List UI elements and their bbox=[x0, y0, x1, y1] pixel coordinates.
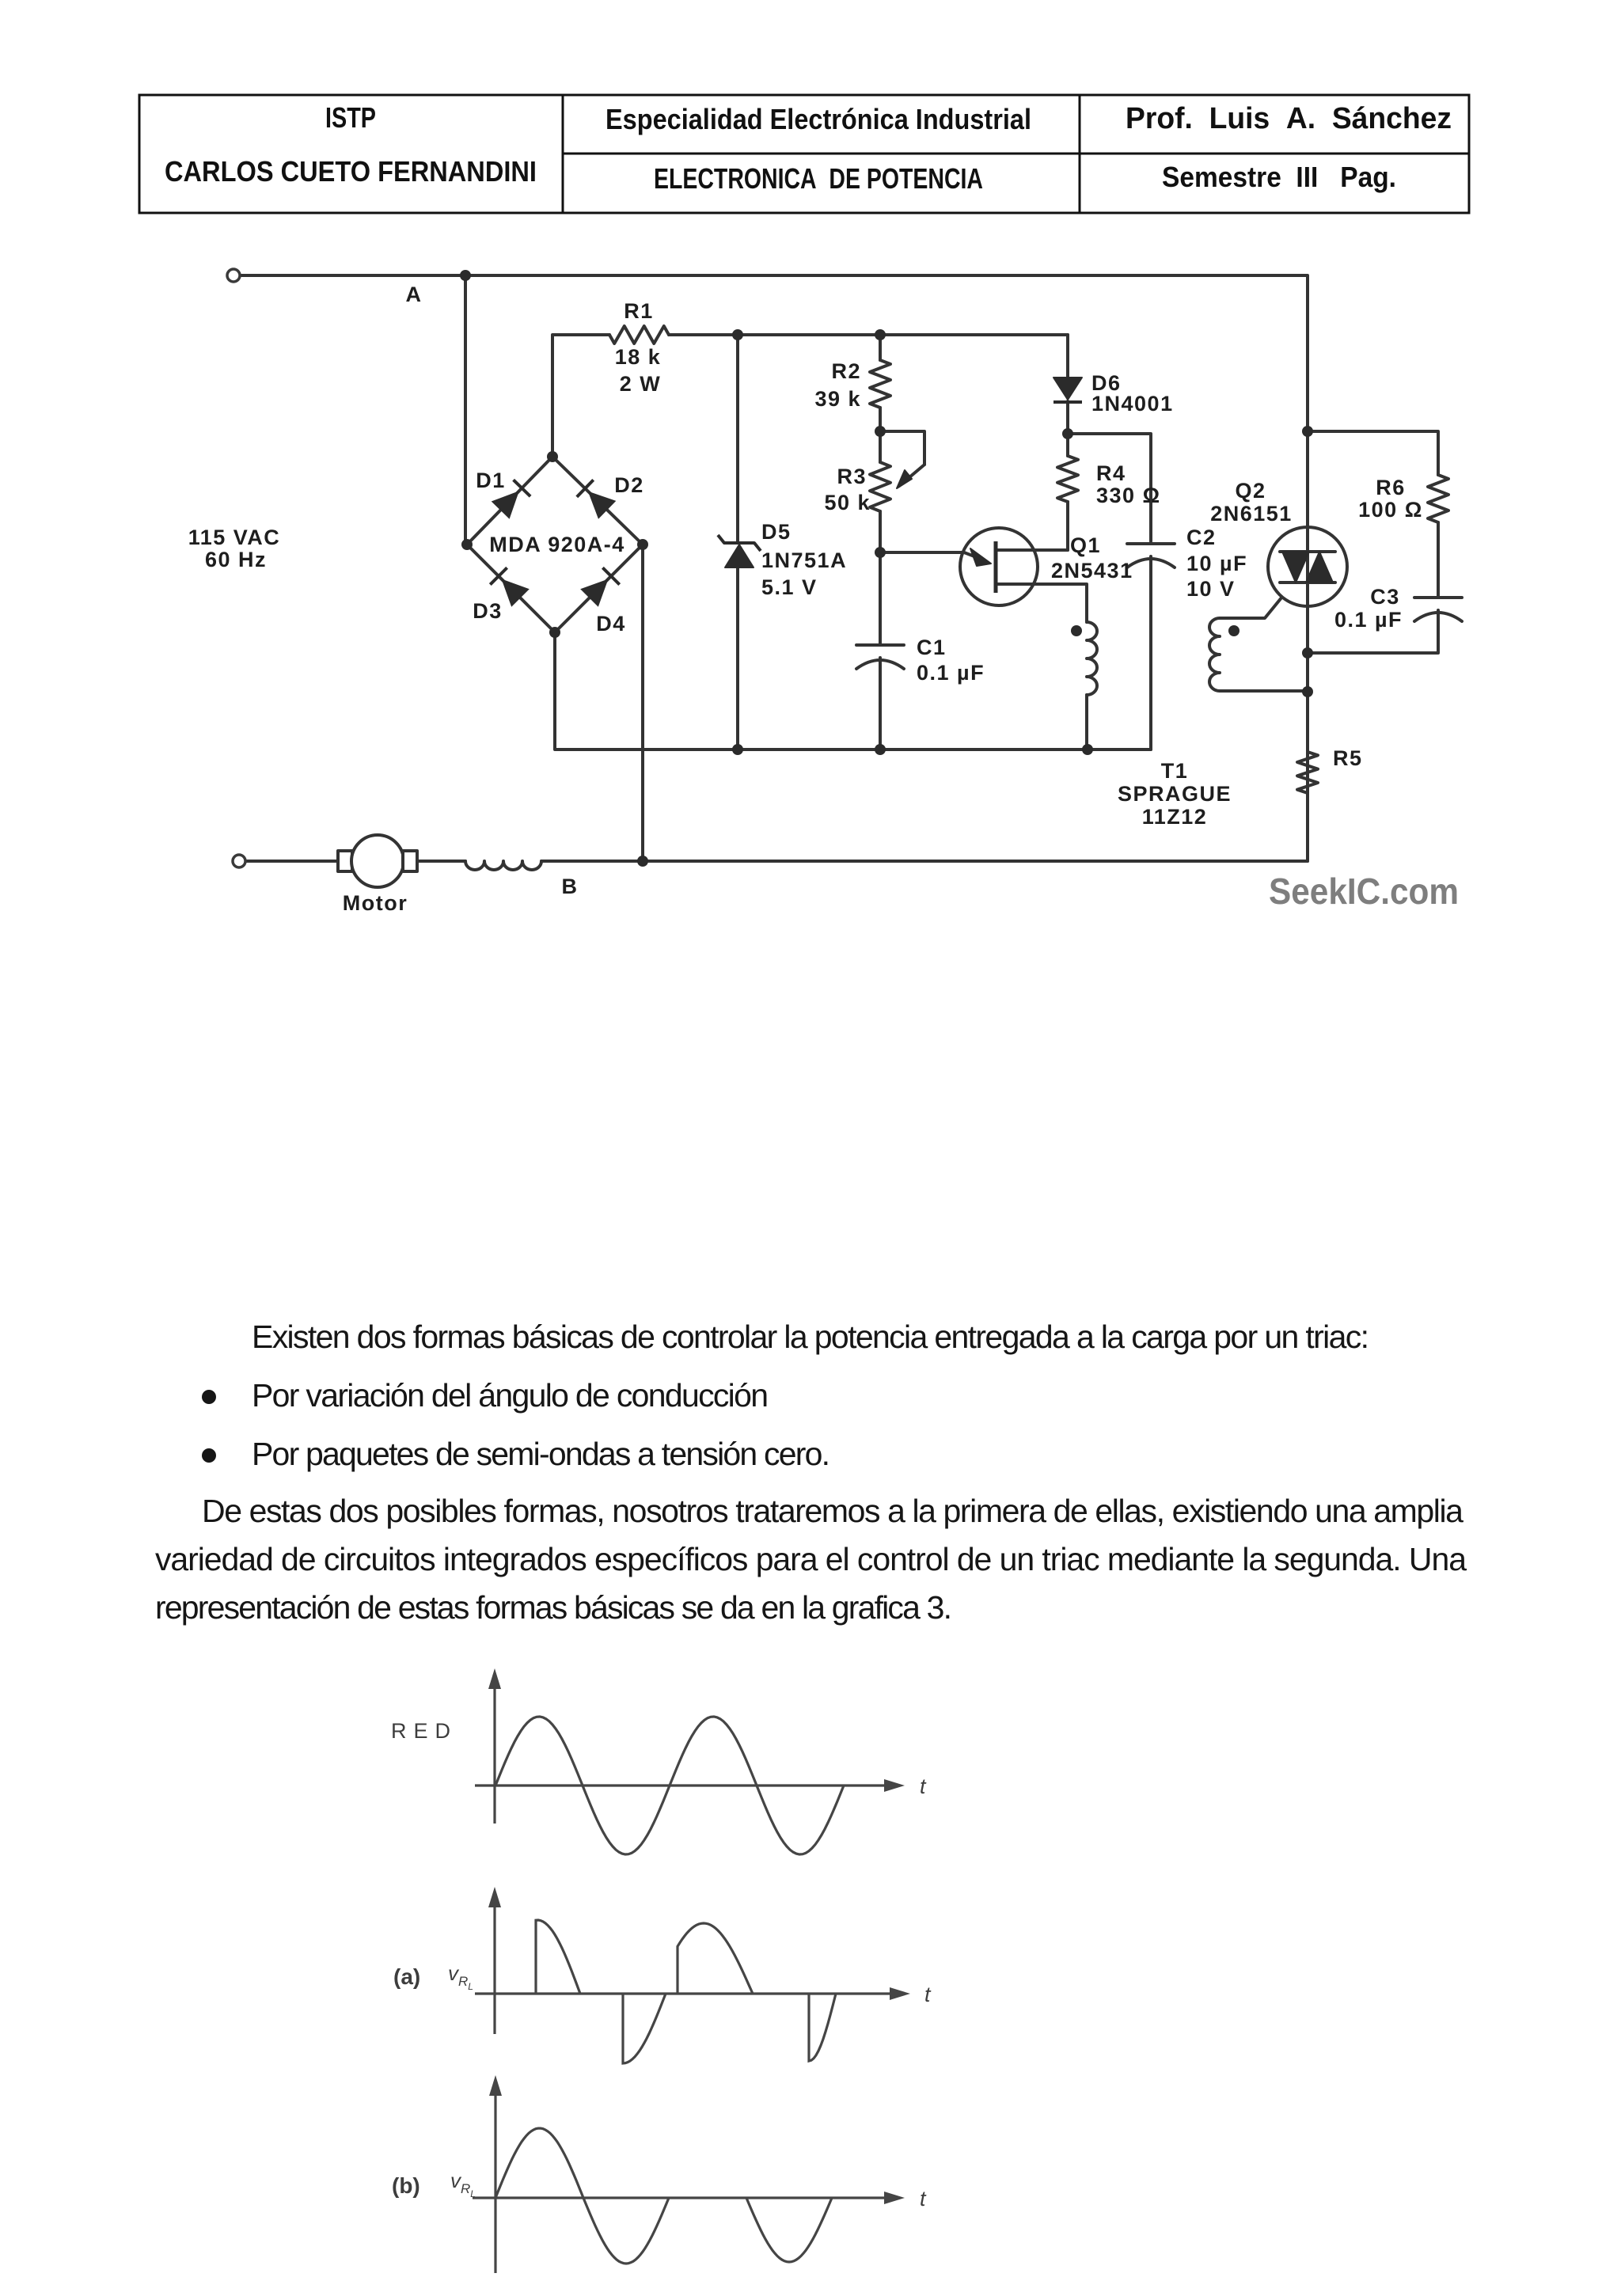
svg-text:5.1 V: 5.1 V bbox=[761, 575, 818, 599]
svg-text:Semestre III Pag.: Semestre III Pag. bbox=[1162, 161, 1396, 193]
svg-text:C2: C2 bbox=[1186, 526, 1217, 549]
svg-text:10 V: 10 V bbox=[1186, 577, 1236, 601]
svg-text:SeekIC.com: SeekIC.com bbox=[1269, 871, 1459, 912]
svg-text:D1: D1 bbox=[476, 469, 506, 492]
svg-text:50 k: 50 k bbox=[824, 491, 871, 514]
svg-text:RED: RED bbox=[391, 1719, 457, 1743]
svg-text:60 Hz: 60 Hz bbox=[205, 548, 267, 571]
svg-text:(a): (a) bbox=[393, 1964, 420, 1989]
svg-text:2N5431: 2N5431 bbox=[1051, 559, 1133, 583]
svg-text:Q1: Q1 bbox=[1070, 533, 1101, 557]
svg-text:ELECTRONICA DE POTENCIA: ELECTRONICA DE POTENCIA bbox=[654, 162, 983, 195]
svg-text:B: B bbox=[562, 875, 579, 898]
svg-text:D3: D3 bbox=[473, 599, 503, 623]
svg-text:100 Ω: 100 Ω bbox=[1358, 498, 1423, 522]
svg-text:T1: T1 bbox=[1161, 759, 1189, 783]
svg-text:2 W: 2 W bbox=[620, 372, 662, 396]
svg-text:MDA 920A-4: MDA 920A-4 bbox=[489, 533, 625, 556]
svg-text:R3: R3 bbox=[837, 465, 867, 488]
svg-text:18 k: 18 k bbox=[615, 345, 662, 369]
svg-text:R2: R2 bbox=[831, 359, 861, 383]
svg-text:C3: C3 bbox=[1370, 585, 1400, 609]
svg-text:330 Ω: 330 Ω bbox=[1096, 484, 1161, 507]
svg-text:39 k: 39 k bbox=[814, 387, 861, 411]
svg-text:10 µF: 10 µF bbox=[1186, 552, 1247, 575]
svg-text:Q2: Q2 bbox=[1235, 479, 1266, 503]
svg-text:C1: C1 bbox=[917, 636, 947, 659]
svg-text:Especialidad Electrónica Indus: Especialidad Electrónica Industrial bbox=[606, 103, 1031, 135]
svg-text:Por variación del ángulo de co: Por variación del ángulo de conducción bbox=[252, 1377, 769, 1414]
svg-text:0.1 µF: 0.1 µF bbox=[1334, 608, 1403, 632]
svg-text:R6: R6 bbox=[1376, 476, 1406, 499]
svg-text:Por paquetes de semi-ondas a t: Por paquetes de semi-ondas a tensión cer… bbox=[252, 1436, 830, 1472]
svg-text:Prof. Luis A. Sánchez: Prof. Luis A. Sánchez bbox=[1126, 102, 1452, 135]
svg-text:Existen dos formas básicas de: Existen dos formas básicas de controlar … bbox=[252, 1319, 1369, 1355]
svg-text:R1: R1 bbox=[624, 299, 654, 323]
svg-text:115 VAC: 115 VAC bbox=[188, 526, 281, 549]
svg-text:D4: D4 bbox=[596, 612, 626, 636]
svg-text:CARLOS CUETO FERNANDINI: CARLOS CUETO FERNANDINI bbox=[165, 155, 537, 188]
svg-text:(b): (b) bbox=[392, 2173, 420, 2198]
svg-text:1N751A: 1N751A bbox=[761, 548, 847, 572]
svg-text:Motor: Motor bbox=[343, 891, 408, 915]
svg-text:SPRAGUE: SPRAGUE bbox=[1118, 782, 1232, 806]
svg-text:D5: D5 bbox=[761, 520, 792, 544]
svg-text:1N4001: 1N4001 bbox=[1091, 392, 1174, 416]
svg-text:2N6151: 2N6151 bbox=[1210, 502, 1293, 526]
svg-text:variedad de circuitos integrad: variedad de circuitos integrados específ… bbox=[155, 1541, 1467, 1577]
svg-text:11Z12: 11Z12 bbox=[1142, 805, 1208, 829]
svg-text:R5: R5 bbox=[1333, 746, 1363, 770]
svg-text:0.1 µF: 0.1 µF bbox=[917, 661, 985, 685]
svg-text:De estas dos posibles formas,: De estas dos posibles formas, nosotros t… bbox=[202, 1493, 1463, 1529]
svg-text:D2: D2 bbox=[614, 473, 644, 497]
svg-text:R4: R4 bbox=[1096, 461, 1126, 485]
svg-text:representación de estas formas: representación de estas formas básicas s… bbox=[155, 1589, 952, 1626]
svg-text:A: A bbox=[406, 283, 423, 306]
svg-text:ISTP: ISTP bbox=[325, 101, 376, 134]
